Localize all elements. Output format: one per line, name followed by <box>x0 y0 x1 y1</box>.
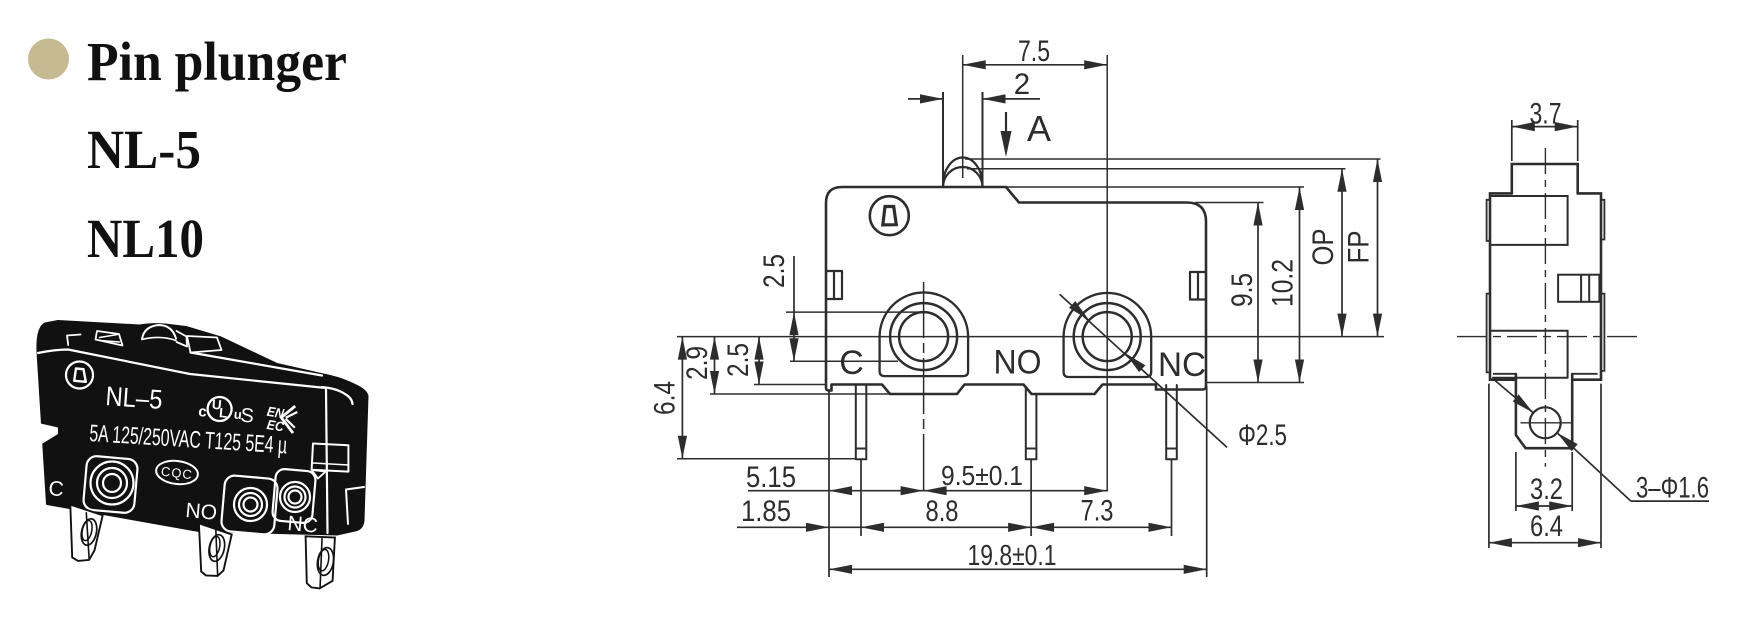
photo: NO terminal boss <box>221 475 279 535</box>
photo: CQC oval <box>155 459 199 487</box>
dimension 6.4 left <box>681 337 683 459</box>
svg-text:S: S <box>240 405 255 428</box>
front view: top-left level extension (10.2 ref) <box>1006 186 1304 188</box>
front view: NC hole housing <box>1064 293 1152 377</box>
dimension 7.5 <box>963 64 1107 66</box>
front view: plunger centre line <box>962 55 964 178</box>
front view: orientation logo trapezoid <box>883 207 897 225</box>
svg-text:NL-5: NL-5 <box>87 119 201 180</box>
photo: C terminal boss <box>83 455 139 513</box>
photo: top-face left notch lines <box>67 335 81 346</box>
bullet circle (tan) <box>28 39 69 80</box>
svg-text:C: C <box>839 344 864 382</box>
front view: NC hole vertical line (7.5 extension) <box>1106 55 1108 492</box>
photo: top-right corner white arc <box>322 387 353 404</box>
photo: pin NC hole <box>315 546 335 576</box>
extension line pin1 centre <box>860 459 862 536</box>
svg-text:3.2: 3.2 <box>1530 473 1563 506</box>
photo: ENEC emblem <box>264 402 298 436</box>
extension line pin3 centre <box>1171 459 1173 536</box>
front view: top-right level extension (9.5 ref) <box>1195 202 1264 204</box>
svg-text:2.9: 2.9 <box>681 346 714 380</box>
front view: FP level line <box>965 158 1381 160</box>
side view: terminal hole <box>1530 407 1561 438</box>
photo: pin NO blade <box>199 523 232 576</box>
svg-text:NC: NC <box>1158 346 1206 384</box>
svg-text:2: 2 <box>1014 68 1030 101</box>
front view: hole bottom tangent line <box>790 360 898 362</box>
svg-text:NL–5: NL–5 <box>105 381 164 415</box>
photo: orientation logo trapezoid <box>74 369 86 382</box>
dimension 9.5 right <box>1257 203 1259 383</box>
front view: foot extension line <box>710 393 890 395</box>
photo: front-right edge white line <box>326 389 328 533</box>
svg-text:7.3: 7.3 <box>1081 495 1114 528</box>
dimension 10.2 <box>1299 187 1301 383</box>
dimension 2 <box>908 98 943 100</box>
svg-text:6.4: 6.4 <box>649 381 682 415</box>
dimension 8.8 <box>861 523 884 532</box>
side view: right flange lower <box>1601 294 1604 371</box>
photo: right face bottom step lines <box>346 487 364 524</box>
svg-text:L: L <box>219 405 229 421</box>
side view: terminal hole horizontal crosshair <box>1521 422 1573 424</box>
front view: pin bottom extension line <box>677 458 856 460</box>
svg-text:9.5: 9.5 <box>1226 273 1259 307</box>
photo: lever slot inner lines <box>100 335 120 343</box>
svg-text:NO: NO <box>994 344 1042 382</box>
photo: lever slot white outline <box>96 331 123 346</box>
photo: pin NC blade <box>306 536 335 588</box>
leader 3-PHI1.6 lower segment <box>1557 433 1631 501</box>
photo: UL circle <box>207 396 233 422</box>
photo: pin NO hole <box>207 533 227 563</box>
side view: upper inner block <box>1490 196 1568 245</box>
side view: lower inner block <box>1490 331 1568 378</box>
photo: NC terminal boss (partial) <box>272 468 316 523</box>
side view: vertical centre line <box>1544 148 1546 467</box>
svg-text:1.85: 1.85 <box>741 495 791 528</box>
svg-text:FP: FP <box>1343 231 1376 264</box>
svg-text:OP: OP <box>1307 229 1340 266</box>
extension line body left bottom <box>828 391 830 578</box>
photo: top-face mid ridge white line <box>191 353 323 376</box>
front view: OP level line <box>967 168 1346 170</box>
svg-text:3–Φ1.6: 3–Φ1.6 <box>1636 472 1709 505</box>
leader line PHI 2.5 <box>1060 294 1227 447</box>
dimension 3.7 <box>1511 120 1513 161</box>
photo: right side tab wedge <box>312 470 326 479</box>
dimension 2.5 lower <box>758 337 760 385</box>
front view: pin 3 <box>1166 385 1177 459</box>
front view: body bottom extension left <box>754 384 826 386</box>
dimension 2.9 <box>714 337 716 394</box>
side view: plunger <box>1512 164 1578 193</box>
front view: left mounting tab <box>826 271 842 299</box>
side view: body outline <box>1490 193 1601 379</box>
dimension 6.4 side view <box>1488 384 1490 548</box>
dimension 7.3 <box>1031 526 1171 528</box>
photo: left edge notch (white wedge) <box>39 423 59 446</box>
front view: plunger <box>942 92 944 187</box>
photo: pin C hole <box>79 517 99 546</box>
front view: pin 1 <box>856 385 867 459</box>
svg-text:NC: NC <box>287 512 319 538</box>
svg-text:3.7: 3.7 <box>1530 98 1562 131</box>
svg-text:8.8: 8.8 <box>926 495 959 528</box>
side view: horizontal centre line <box>1457 336 1641 338</box>
svg-text:5.15: 5.15 <box>746 461 796 494</box>
arrow A (operation direction) <box>1005 112 1007 137</box>
dimension 1.85 <box>737 526 861 528</box>
front view: hole top tangent line <box>786 311 925 313</box>
extension line body right bottom <box>1206 386 1208 577</box>
photo: orientation logo circle <box>66 362 93 389</box>
front view: orientation logo circle <box>870 196 909 235</box>
side view: bottom inner edge lines <box>1493 373 1516 375</box>
photo: plunger dome white outline <box>142 325 176 339</box>
front view: pin 2 <box>1026 387 1037 459</box>
svg-text:Φ2.5: Φ2.5 <box>1238 419 1287 452</box>
front view: bottom extension right <box>1206 382 1304 384</box>
svg-text:2.5: 2.5 <box>758 254 791 288</box>
extension line pin2 centre <box>1030 459 1032 536</box>
front view: C hole circles <box>890 303 957 370</box>
photo: switch body silhouette <box>37 321 367 535</box>
dimension FP <box>1377 159 1379 337</box>
svg-text:6.4: 6.4 <box>1530 510 1563 543</box>
svg-text:2.5: 2.5 <box>722 343 755 377</box>
photo: pin C blade <box>70 505 102 561</box>
svg-text:c: c <box>198 403 208 421</box>
svg-text:NO: NO <box>185 499 218 525</box>
svg-text:10.2: 10.2 <box>1267 259 1300 307</box>
front view: C hole vertical centre line <box>923 282 925 492</box>
svg-text:19.8±0.1: 19.8±0.1 <box>968 540 1057 572</box>
svg-text:Pin plunger: Pin plunger <box>87 31 347 92</box>
side view: right flange upper <box>1601 200 1604 240</box>
photo: right side mounting tab <box>312 444 349 472</box>
dimension 3.2 <box>1515 452 1517 511</box>
dimension 5.15 <box>748 490 924 492</box>
front view: hole centre line horizontal <box>677 336 1384 338</box>
photo: plunger dome side face <box>177 331 188 347</box>
side view: terminal blade <box>1516 374 1572 448</box>
side view: mounting tab block <box>1558 275 1599 302</box>
front view: NC hole circles <box>1074 303 1141 370</box>
side view: left flange upper <box>1487 200 1490 241</box>
dimension 2.5 upper <box>793 256 795 312</box>
svg-text:9.5±0.1: 9.5±0.1 <box>941 460 1023 491</box>
dimension 9.5 +/-0.1 <box>924 490 1108 492</box>
svg-text:A: A <box>1027 108 1051 149</box>
photo: top-face front edge white line <box>38 350 326 389</box>
photo: step block white outline <box>187 336 222 353</box>
front view: body outline <box>826 187 1206 386</box>
svg-text:7.5: 7.5 <box>1018 35 1050 68</box>
svg-text:C: C <box>48 477 65 501</box>
front view: right mounting tab <box>1190 272 1206 300</box>
dimension OP <box>1341 169 1343 337</box>
dimension 19.8 +/-0.1 <box>829 568 1207 570</box>
svg-text:NL10: NL10 <box>87 208 204 269</box>
front view: body bottom profile <box>826 380 1206 394</box>
leader 3-PHI1.6 upper segment <box>1495 381 1533 413</box>
side view: left flange lower <box>1487 294 1490 373</box>
front view: C hole housing <box>880 292 969 376</box>
